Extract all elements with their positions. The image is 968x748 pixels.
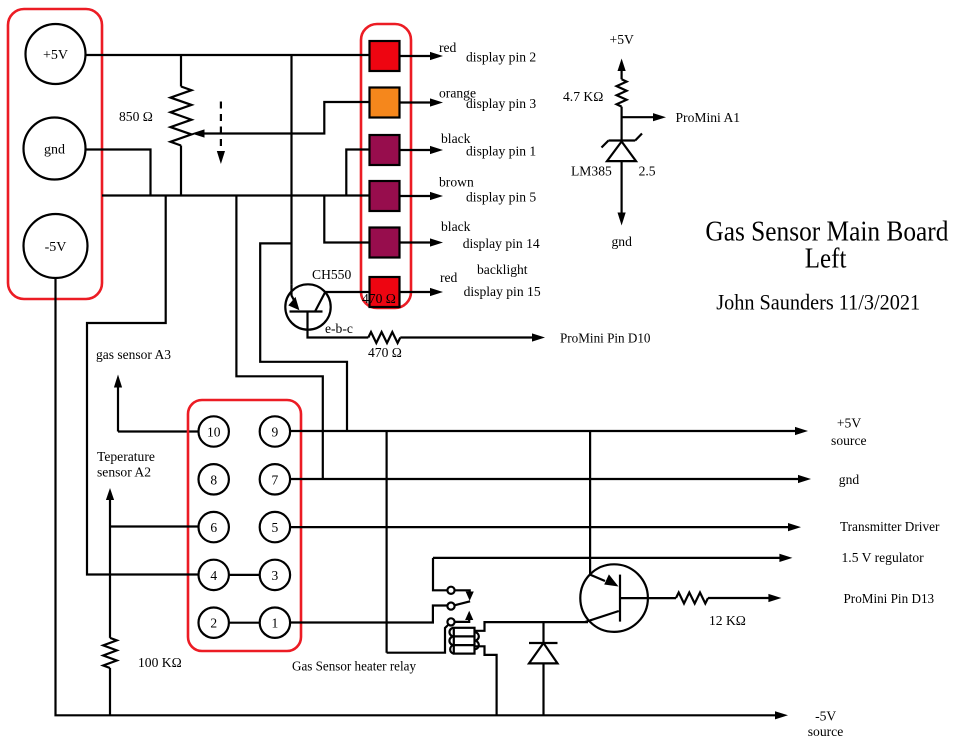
- svg-text:display pin 5: display pin 5: [466, 190, 536, 205]
- gnd terminal: [24, 118, 86, 180]
- resistor R4 12K: [676, 593, 746, 629]
- svg-text:Gas Sensor heater relay: Gas Sensor heater relay: [292, 659, 416, 674]
- wire gnd to bus: [85, 150, 151, 196]
- svg-text:brown: brown: [439, 175, 474, 190]
- relay K1 contact C1: [433, 558, 474, 601]
- zener diode LM385 2.5: [571, 134, 656, 179]
- svg-text:2: 2: [210, 616, 217, 631]
- display pin 2 arrow: [400, 40, 537, 65]
- pin 1: [260, 608, 290, 638]
- display pad black (pin1): [370, 135, 400, 165]
- svg-text:red: red: [440, 270, 458, 285]
- svg-text:10: 10: [207, 425, 221, 440]
- svg-text:display pin 15: display pin 15: [464, 284, 541, 299]
- pin 7: [260, 464, 290, 494]
- 1.5V regulator rail: [433, 550, 924, 565]
- display pin 14 arrow: [400, 219, 540, 277]
- svg-text:6: 6: [210, 520, 217, 535]
- wire to ProMini D13 arrow: [708, 591, 934, 606]
- svg-text:100 KΩ: 100 KΩ: [138, 655, 182, 670]
- svg-text:Transmitter Driver: Transmitter Driver: [840, 519, 940, 534]
- display pad red (pin2): [370, 41, 400, 71]
- pin 4: [199, 560, 229, 590]
- svg-text:red: red: [439, 40, 457, 55]
- -5V source rail: [56, 278, 844, 739]
- title: [705, 216, 948, 315]
- svg-text:e-b-c: e-b-c: [325, 321, 353, 336]
- display pad orange (pin3): [370, 88, 400, 118]
- svg-text:5: 5: [272, 520, 279, 535]
- Gas Sensor heater relay label: [292, 659, 416, 674]
- svg-text:gnd: gnd: [839, 472, 860, 487]
- display pin 1 arrow: [400, 131, 537, 159]
- gnd bus wire: [102, 194, 370, 196]
- +5V source rail: [290, 416, 867, 449]
- svg-text:ProMini A1: ProMini A1: [676, 110, 741, 125]
- -5V terminal: [24, 214, 88, 278]
- svg-text:gas sensor A3: gas sensor A3: [96, 347, 171, 362]
- svg-text:-5V: -5V: [815, 709, 836, 724]
- display pad black (pin14): [370, 228, 400, 258]
- svg-text:+5V: +5V: [837, 416, 861, 431]
- wire zener to gnd arrow: [612, 161, 633, 249]
- svg-text:black: black: [441, 219, 471, 234]
- +5V reference node: [610, 32, 634, 79]
- dashed adjustment arrow: [217, 102, 225, 165]
- wire black2 pad link: [324, 196, 369, 243]
- svg-text:850 Ω: 850 Ω: [119, 109, 153, 124]
- resistor R1 850 ohm: [119, 55, 192, 196]
- svg-text:source: source: [808, 724, 843, 739]
- pin 3: [260, 560, 290, 590]
- display connector box: [361, 24, 411, 308]
- wire to ProMini D10 arrow: [400, 331, 650, 346]
- svg-text:1: 1: [272, 616, 279, 631]
- sensor connector box: [188, 400, 301, 651]
- svg-text:1.5 V regulator: 1.5 V regulator: [842, 550, 925, 565]
- transistor Q1 CH550: [285, 267, 353, 336]
- svg-text:+5V: +5V: [610, 32, 634, 47]
- potentiometer wiper arrow: [192, 102, 370, 138]
- svg-text:display pin 14: display pin 14: [463, 236, 540, 251]
- display pad red (pin15): [370, 277, 400, 307]
- relay contact C3: [387, 611, 474, 653]
- svg-text:source: source: [831, 433, 866, 448]
- wire black1 pad link: [346, 150, 369, 196]
- pin 10: [199, 416, 229, 446]
- relay coil: [449, 628, 478, 654]
- wire gnd branch to gnd rail: [236, 196, 322, 480]
- svg-text:backlight: backlight: [477, 262, 528, 277]
- display pin 5 arrow: [400, 175, 537, 205]
- relay contact C2 common: [447, 601, 470, 609]
- svg-text:LM385: LM385: [571, 164, 612, 179]
- svg-text:-5V: -5V: [45, 240, 67, 255]
- svg-text:display pin 1: display pin 1: [466, 144, 536, 159]
- gas sensor A3 arrow: [96, 347, 199, 432]
- pin 8: [199, 464, 229, 494]
- display pad brown (pin5): [370, 181, 400, 211]
- resistor R3 100K: [103, 638, 182, 715]
- wire coil top to Q2 emitter: [475, 622, 589, 631]
- display pin 15 arrow: [400, 270, 541, 299]
- svg-text:ProMini Pin D10: ProMini Pin D10: [560, 331, 651, 346]
- resistor R5 4.7K: [563, 79, 627, 140]
- svg-text:display pin 2: display pin 2: [466, 50, 536, 65]
- svg-text:470 Ω: 470 Ω: [362, 291, 396, 306]
- svg-text:2.5: 2.5: [639, 164, 656, 179]
- wire +5V vertical drop: [290, 55, 292, 284]
- +5V terminal: [26, 24, 86, 84]
- pin 5: [260, 512, 290, 542]
- wire coil bottom to -5V rail: [475, 646, 497, 715]
- svg-text:8: 8: [210, 472, 217, 487]
- svg-text:4: 4: [210, 568, 217, 583]
- svg-text:4.7 KΩ: 4.7 KΩ: [563, 89, 603, 104]
- wire relay C3 to +5V source: [386, 431, 388, 653]
- wire pin4-pin3 link: [229, 574, 260, 576]
- svg-text:ProMini Pin D13: ProMini Pin D13: [844, 591, 935, 606]
- svg-text:gnd: gnd: [612, 234, 633, 249]
- temperature sensor arrow and divider wire: [106, 488, 199, 638]
- transistor Q2: [580, 431, 676, 632]
- wire +5V rail: [85, 54, 370, 56]
- svg-text:Left: Left: [805, 243, 847, 275]
- svg-text:7: 7: [272, 472, 279, 487]
- svg-text:Teperature: Teperature: [97, 449, 155, 464]
- wire Q1 collector to backlight pad: [326, 291, 370, 293]
- svg-text:470 Ω: 470 Ω: [368, 345, 402, 360]
- wire gnd bus to pin 4: [87, 196, 199, 575]
- Transmitter Driver rail: [290, 519, 940, 534]
- svg-text:display pin 3: display pin 3: [466, 96, 536, 111]
- pin 2: [199, 608, 229, 638]
- pin 9: [260, 416, 290, 446]
- gnd rail: [290, 472, 859, 487]
- Teperature sensor A2 label: [97, 449, 155, 480]
- svg-text:12 KΩ: 12 KΩ: [709, 613, 746, 628]
- wire pin2-pin1 link: [229, 622, 260, 624]
- svg-text:gnd: gnd: [44, 143, 65, 158]
- svg-text:CH550: CH550: [312, 267, 351, 282]
- power source box: [8, 9, 102, 299]
- svg-text:+5V: +5V: [43, 48, 68, 63]
- pin 6: [199, 512, 229, 542]
- resistor R2 470 ohm: [368, 332, 402, 360]
- svg-text:9: 9: [272, 425, 279, 440]
- svg-text:sensor A2: sensor A2: [97, 465, 151, 480]
- diode D1: [529, 622, 558, 715]
- wire pin1 to relay common: [290, 606, 447, 623]
- display pin 3 arrow: [400, 86, 537, 112]
- wire Q1 base down: [308, 312, 369, 338]
- wire to ProMini A1 arrow: [622, 110, 740, 125]
- svg-text:John Saunders 11/3/2021: John Saunders 11/3/2021: [716, 290, 920, 315]
- svg-text:3: 3: [272, 568, 279, 583]
- wire +5V branch to source rail: [260, 243, 347, 431]
- resistor 470 ohm label overlapping pad: [362, 291, 396, 306]
